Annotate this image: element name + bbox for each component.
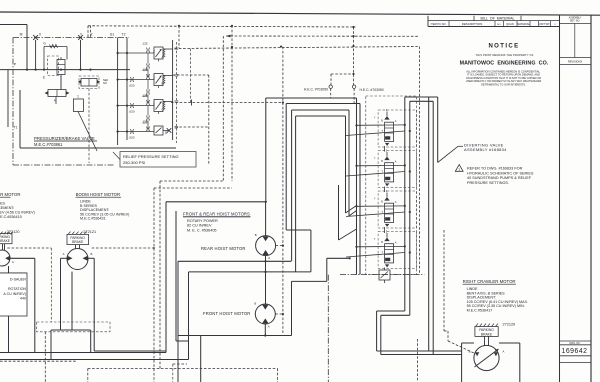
svg-text:1: 1 xyxy=(458,167,460,171)
svg-text:REAR HOIST MOTOR: REAR HOIST MOTOR xyxy=(201,246,246,251)
svg-text:UNIT WT.: UNIT WT. xyxy=(539,22,550,26)
svg-text:D-SAUER: D-SAUER xyxy=(10,278,27,282)
svg-text:FRONT & REAR HOIST MOTORS: FRONT & REAR HOIST MOTORS xyxy=(183,212,250,217)
svg-text:DET. NO.: DET. NO. xyxy=(570,20,580,23)
svg-text:M.E.C.#536431: M.E.C.#536431 xyxy=(80,217,106,221)
svg-text:T1: T1 xyxy=(14,126,18,130)
svg-text:H.E.C. #703050: H.E.C. #703050 xyxy=(360,88,384,92)
svg-text:B4: B4 xyxy=(175,126,179,130)
svg-text:DETRIMENTAL TO OUR INTERESTS.: DETRIMENTAL TO OUR INTERESTS. xyxy=(481,82,526,86)
svg-text:A: A xyxy=(268,325,270,329)
svg-text:ROTATION: ROTATION xyxy=(8,287,26,291)
svg-text:G1: G1 xyxy=(110,32,115,36)
svg-text:BRAKE: BRAKE xyxy=(481,332,493,336)
svg-text:250-300 PSI: 250-300 PSI xyxy=(123,160,145,165)
svg-text:BOOM HOIST MOTOR: BOOM HOIST MOTOR xyxy=(76,192,120,197)
svg-text:M.E.C.#536417: M.E.C.#536417 xyxy=(467,309,493,313)
svg-text:B: B xyxy=(91,252,93,256)
svg-text:DISPLACEMENT:: DISPLACEMENT: xyxy=(0,206,14,210)
svg-text:THIS PRINT REMAINS THE PROPERT: THIS PRINT REMAINS THE PROPERTY OF xyxy=(476,53,534,57)
svg-text:.020: .020 xyxy=(129,83,135,87)
svg-text:REFER TO DWG. #169633 FOR: REFER TO DWG. #169633 FOR xyxy=(467,167,523,171)
svg-text:A: A xyxy=(12,260,14,264)
svg-text:B1: B1 xyxy=(175,47,179,51)
svg-text:MANITOWOC ENGINEERING CO.: MANITOWOC ENGINEERING CO. xyxy=(460,61,549,67)
svg-text:M: M xyxy=(20,32,23,36)
svg-text:RIGHT CRAWLER MOTOR: RIGHT CRAWLER MOTOR xyxy=(463,279,516,284)
svg-text:E: E xyxy=(43,76,45,80)
svg-text:ASSEMBLY #168834: ASSEMBLY #168834 xyxy=(464,147,507,152)
svg-text:B: B xyxy=(255,233,257,237)
svg-text:169642: 169642 xyxy=(562,348,588,355)
svg-text:PRESSURIZER/BRAKE VALVE: PRESSURIZER/BRAKE VALVE xyxy=(34,136,95,141)
svg-text:NO.: NO. xyxy=(497,24,501,26)
svg-text:272129: 272129 xyxy=(503,322,516,326)
svg-text:440: 440 xyxy=(20,297,26,301)
svg-text:RELIEF PRESSURE SETTING: RELIEF PRESSURE SETTING xyxy=(123,154,179,159)
svg-text:272120: 272120 xyxy=(7,230,20,234)
svg-text:272121: 272121 xyxy=(83,230,96,234)
svg-text:B: B xyxy=(162,82,164,86)
svg-text:B: B xyxy=(469,350,471,354)
svg-text:A: A xyxy=(63,252,65,256)
svg-text:B SERIES: B SERIES xyxy=(0,201,6,205)
svg-text:M.E.C.#703861: M.E.C.#703861 xyxy=(34,142,63,147)
svg-text:ITEM PC NO.: ITEM PC NO. xyxy=(431,22,447,26)
svg-text:FRONT HOIST MOTOR: FRONT HOIST MOTOR xyxy=(203,311,250,316)
svg-text:.020: .020 xyxy=(129,109,135,113)
svg-text:MATERIAL: MATERIAL xyxy=(517,22,530,26)
svg-text:40 SUNDSTRAND PUMPS & RELIEF: 40 SUNDSTRAND PUMPS & RELIEF xyxy=(467,176,532,180)
svg-text:M. E. C. #536405: M. E. C. #536405 xyxy=(187,228,217,232)
svg-text:T2: T2 xyxy=(122,32,126,36)
svg-text:A: A xyxy=(162,55,164,59)
svg-text:A: A xyxy=(268,256,270,260)
svg-text:B: B xyxy=(254,302,256,306)
svg-text:A: A xyxy=(503,350,505,354)
svg-text:A CU IN/REV): A CU IN/REV) xyxy=(3,292,26,296)
svg-text:ROTARY POWER: ROTARY POWER xyxy=(187,219,218,223)
svg-text:REVISIONS: REVISIONS xyxy=(568,59,582,63)
svg-text:HYDRAULIC SCHEMATIC OF SERIES: HYDRAULIC SCHEMATIC OF SERIES xyxy=(467,171,534,175)
svg-text:QUAN: QUAN xyxy=(506,22,514,26)
svg-text:DESCRIPTION: DESCRIPTION xyxy=(462,22,483,26)
svg-text:CRAWLER MOTOR: CRAWLER MOTOR xyxy=(0,192,20,197)
svg-text:H.E.C. #703050: H.E.C. #703050 xyxy=(304,88,328,92)
svg-text:BRAKE: BRAKE xyxy=(0,239,11,243)
svg-text:82 CU IN/REV: 82 CU IN/REV xyxy=(187,224,212,228)
svg-text:M.E.C.#536415: M.E.C.#536415 xyxy=(0,215,22,219)
svg-text:1: 1 xyxy=(77,95,79,99)
svg-text:.125: .125 xyxy=(142,42,148,46)
svg-text:BILL OF MATERIAL: BILL OF MATERIAL xyxy=(481,17,515,21)
svg-text:BRAKE: BRAKE xyxy=(72,240,84,244)
svg-text:.020: .020 xyxy=(129,135,135,139)
svg-text:B2: B2 xyxy=(175,74,179,78)
svg-text:PRESSURE SETTINGS.: PRESSURE SETTINGS. xyxy=(467,181,509,185)
svg-text:NO: NO xyxy=(103,81,107,85)
svg-text:NOTICE: NOTICE xyxy=(488,44,519,50)
svg-text:75 CC/REV (4.56 CU IN/REV): 75 CC/REV (4.56 CU IN/REV) xyxy=(0,211,35,215)
